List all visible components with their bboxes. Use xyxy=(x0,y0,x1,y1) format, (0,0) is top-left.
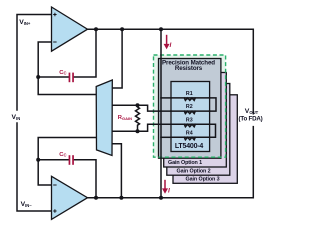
svg-text:R4: R4 xyxy=(186,130,193,136)
svg-text:CC: CC xyxy=(59,152,66,158)
svg-text:R2: R2 xyxy=(186,104,193,110)
svg-text:CC: CC xyxy=(59,70,66,76)
svg-text:I: I xyxy=(168,188,170,195)
svg-text:LT5400-4: LT5400-4 xyxy=(175,143,204,150)
svg-text:Gain Option 2: Gain Option 2 xyxy=(177,168,211,174)
svg-text:I: I xyxy=(170,42,172,49)
svg-text:Gain Option 1: Gain Option 1 xyxy=(168,160,202,166)
svg-text:Resistors: Resistors xyxy=(175,65,203,72)
svg-text:Gain Option 3: Gain Option 3 xyxy=(186,176,220,182)
svg-text:RGAIN: RGAIN xyxy=(118,115,132,121)
svg-text:R1: R1 xyxy=(186,91,193,97)
svg-text:(To FDA): (To FDA) xyxy=(238,115,262,122)
svg-text:R3: R3 xyxy=(186,117,193,123)
